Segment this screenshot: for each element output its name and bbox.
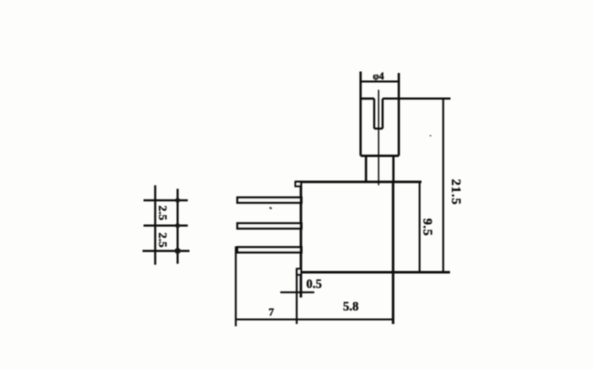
pin pitch detail: pad dot 2: [175, 223, 180, 228]
dimension label 2.5 lower: [156, 233, 170, 248]
dimension label phi4: [373, 71, 384, 82]
body top edge with 9.5 extension: [295, 181, 422, 184]
screw slot bottom: [374, 128, 382, 130]
shaft top face left stub: [361, 97, 375, 99]
svg-text:9.5: 9.5: [420, 218, 435, 236]
dimension line 21.5: [442, 99, 444, 273]
top-left mold tab: [295, 182, 301, 186]
bottom dimension line: [236, 318, 393, 320]
screw slot left wall: [373, 99, 375, 129]
pin 1: [237, 198, 301, 203]
pin 3: [237, 247, 301, 252]
phi4 dimension line: [361, 81, 399, 83]
screw shaft left edge: [359, 72, 361, 156]
front plate right edge / 0.5 extension: [296, 269, 298, 324]
shaft top face right stub with 21.5 extension: [383, 98, 451, 100]
dimension label 5.8: [343, 300, 359, 314]
svg-text:2.5: 2.5: [156, 233, 170, 248]
svg-text:φ4: φ4: [373, 71, 384, 82]
scan speck near pin 2: [269, 207, 272, 210]
pin pitch detail: pad dot 1: [175, 198, 180, 203]
dimension line 9.5: [419, 182, 421, 272]
pin pitch detail: pin2 axis line: [144, 225, 188, 227]
svg-text:2.5: 2.5: [156, 205, 170, 220]
pin pitch detail: vertical line B: [177, 189, 179, 264]
dimension label 7: [268, 306, 274, 318]
pin 2: [237, 223, 301, 228]
body left edge: [300, 182, 303, 298]
pin pitch detail: pin1 axis line: [144, 199, 188, 201]
screw slot right wall: [382, 99, 384, 129]
dimension label 21.5: [449, 179, 464, 205]
screw shaft right edge: [398, 73, 400, 156]
pin pitch detail: vertical line A: [154, 185, 156, 264]
dimension label 0.5: [306, 277, 322, 291]
0.5 dimension line: [280, 291, 314, 293]
pin pitch detail: pad dot 3: [175, 248, 181, 254]
front plate left edge: [235, 246, 237, 326]
bottom-left standoff foot: [297, 269, 301, 275]
svg-text:7: 7: [268, 306, 274, 318]
bushing neck left edge: [365, 156, 367, 182]
bushing neck right edge: [392, 156, 394, 182]
shaft bottom edge: [361, 155, 399, 157]
svg-text:0.5: 0.5: [306, 277, 322, 291]
svg-text:5.8: 5.8: [343, 300, 359, 314]
svg-text:21.5: 21.5: [449, 179, 464, 205]
scan speck right of shaft: [430, 135, 432, 136]
body right edge with extension down: [392, 182, 395, 324]
pin pitch detail: pin3 axis line: [143, 250, 190, 252]
dimension label 9.5: [420, 218, 435, 236]
body bottom edge with extensions: [299, 271, 450, 274]
dimension label 2.5 upper: [156, 205, 170, 220]
shaft center line: [378, 90, 380, 185]
